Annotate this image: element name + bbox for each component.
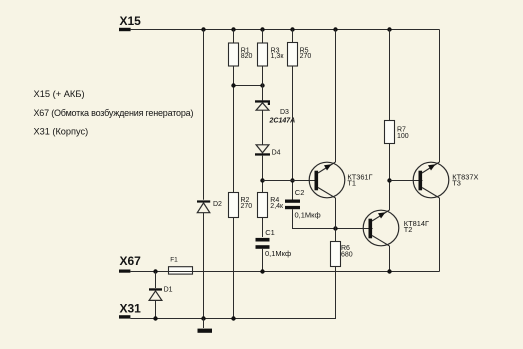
wire: X31 line xyxy=(130,267,335,319)
wire: link R1 bottom to R3 column xyxy=(234,85,263,87)
fuse F1 xyxy=(169,267,193,274)
node: junction X67/D1 xyxy=(153,269,157,273)
svg-text:X31: X31 xyxy=(120,302,142,316)
svg-text:D2: D2 xyxy=(213,201,222,208)
svg-text:T3: T3 xyxy=(452,178,461,187)
node X67 terminal bar xyxy=(119,270,130,273)
wire: D3 to D4 xyxy=(262,110,264,145)
node: junction D4/R4 with T1 base wire xyxy=(260,178,264,182)
wire: T1 base from D4 node xyxy=(263,180,319,182)
svg-text:D1: D1 xyxy=(164,286,173,293)
svg-text:820: 820 xyxy=(241,53,253,60)
wire: T3 base wire xyxy=(390,180,423,182)
svg-text:2С147А: 2С147А xyxy=(269,118,296,125)
resistor R3 xyxy=(258,43,268,66)
svg-text:0,1Мкф: 0,1Мкф xyxy=(295,211,321,220)
wire: T2 collector down to X67 line xyxy=(389,246,391,272)
svg-text:C1: C1 xyxy=(265,228,275,237)
svg-text:X67 (Обмотка возбуждения генер: X67 (Обмотка возбуждения генератора) xyxy=(34,108,194,118)
capacitor C2 xyxy=(285,200,300,210)
node: rail junction at D2 column xyxy=(201,27,205,31)
svg-text:X15: X15 xyxy=(120,14,142,28)
transistor T3 xyxy=(413,162,449,198)
transistor T1 xyxy=(309,162,345,198)
svg-text:680: 680 xyxy=(341,252,353,259)
wire: D1 anode to X31 line xyxy=(155,300,157,318)
resistor R4 xyxy=(258,193,268,218)
svg-text:X67: X67 xyxy=(120,254,142,268)
svg-text:2,4к: 2,4к xyxy=(270,203,284,210)
transistor T2 xyxy=(363,210,399,246)
resistor R2 xyxy=(229,193,239,218)
node: junction R1 column y85 xyxy=(231,83,235,87)
resistor R5 xyxy=(288,43,298,67)
wire: D4 to R4 xyxy=(262,156,264,193)
node: rail junction at T1 emitter column xyxy=(333,27,337,31)
node: rail junction at R5 column xyxy=(290,27,294,31)
wire: rail to R3 xyxy=(262,30,264,44)
resistor R7 xyxy=(385,121,395,144)
wire: R1 bottom to R2 top xyxy=(233,66,235,193)
svg-text:1,3к: 1,3к xyxy=(271,53,285,60)
capacitor C1 xyxy=(256,238,270,249)
wire: rail to R5 xyxy=(292,30,294,43)
wire: rail to R1 xyxy=(233,30,235,44)
wire: T1 emitter up to rail xyxy=(335,30,337,163)
wire: T3 collector down to X67 corner xyxy=(439,198,441,272)
node: rail junction at R7 column xyxy=(387,27,391,31)
zener diode D3 xyxy=(255,100,270,110)
svg-text:0,1Мкф: 0,1Мкф xyxy=(265,249,291,258)
node: junction X31/R2 column xyxy=(231,316,235,320)
wire: D1 column from X67 line xyxy=(155,272,157,289)
node X31 terminal bar xyxy=(119,315,130,318)
wire: R5 bottom to C2 xyxy=(292,66,294,200)
svg-text:D3: D3 xyxy=(280,109,289,116)
wire: R7 bottom to T2 emitter xyxy=(389,144,391,211)
node: rail junction at R3 column xyxy=(260,27,264,31)
node: junction R7 column with T3 base wire xyxy=(387,178,391,182)
wire: D2 column from rail down to D2 xyxy=(203,30,205,200)
svg-text:T2: T2 xyxy=(404,225,413,234)
node: junction X31/D1 xyxy=(153,316,157,320)
node X15 terminal bar xyxy=(119,28,131,31)
svg-text:270: 270 xyxy=(300,53,312,60)
node: junction T1 collector with T2 base wire xyxy=(333,226,337,230)
wire: R3 bottom to D3 xyxy=(262,66,264,100)
node: junction X67/C1 column xyxy=(260,269,264,273)
diode D1 xyxy=(149,288,162,300)
wire: C2 bottom down and right to T2 base xyxy=(293,209,373,228)
diode D2 xyxy=(197,200,210,212)
svg-text:100: 100 xyxy=(397,133,409,140)
wire: rail to R7 xyxy=(389,30,391,121)
ground xyxy=(198,319,213,333)
resistor R1 xyxy=(229,43,239,66)
svg-text:T1: T1 xyxy=(347,178,356,187)
wire: C1 bottom to X67 line xyxy=(262,249,264,272)
svg-text:270: 270 xyxy=(241,203,253,210)
svg-text:X15 (+ АКБ): X15 (+ АКБ) xyxy=(34,89,85,99)
wire +12V rail from X15 xyxy=(131,29,440,31)
wire: R4 bottom to C1 xyxy=(262,218,264,238)
svg-text:C2: C2 xyxy=(295,188,305,197)
wire: T1 collector down to R6 xyxy=(335,198,337,242)
wire: X67 line right segment xyxy=(193,271,440,273)
diode D4 xyxy=(255,145,270,156)
node: junction X31/D2 column xyxy=(201,316,205,320)
wire: R2 bottom to X31 line xyxy=(233,218,235,319)
node: junction R3 column y85 xyxy=(260,83,264,87)
node: rail junction at R1 column xyxy=(231,27,235,31)
wire: R6 bottom to X31 line xyxy=(335,267,337,319)
wire: rail corner down to T3 emitter xyxy=(439,30,441,163)
svg-text:F1: F1 xyxy=(170,257,178,264)
resistor R6 xyxy=(331,242,341,267)
svg-text:D4: D4 xyxy=(272,149,281,156)
node: junction X67/T2 collector xyxy=(387,269,391,273)
svg-text:X31 (Корпус): X31 (Корпус) xyxy=(34,126,89,136)
node: junction R5 column with T1 base wire xyxy=(290,178,294,182)
wire: D2 anode down to X31 line xyxy=(203,213,205,319)
wire: X67 line left segment xyxy=(130,271,168,273)
